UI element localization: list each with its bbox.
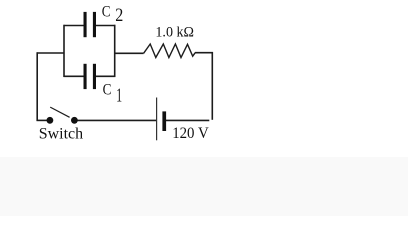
wire left stub (node A to capacitor bank left) [37, 52, 65, 54]
label C1 [103, 82, 122, 107]
wire right vertical [211, 52, 213, 120]
wire bottom left segment [37, 119, 48, 121]
wire mid stub to resistor [114, 52, 144, 54]
svg-text:1.0 kΩ: 1.0 kΩ [155, 25, 194, 41]
label C2 [102, 3, 123, 25]
svg-text:Switch: Switch [39, 126, 83, 143]
capacitor C1 [64, 64, 116, 89]
svg-text:1: 1 [116, 86, 122, 107]
wire left vertical [36, 52, 38, 121]
wire bottom right segment [166, 119, 209, 121]
svg-text:C: C [102, 3, 111, 20]
capacitor C2 [64, 12, 116, 37]
wire resistor to top-right corner [195, 52, 213, 54]
wire capacitor-bank right vertical [114, 25, 116, 77]
resistor R1 1.0 kOhm [144, 44, 196, 58]
wire capacitor-bank left vertical [63, 25, 65, 77]
svg-text:C: C [103, 82, 112, 99]
switch S1 [47, 107, 78, 124]
wire battery to right dot [78, 119, 157, 121]
battery B1 120 V [157, 98, 166, 141]
svg-text:120 V: 120 V [172, 125, 209, 142]
svg-text:2: 2 [115, 5, 123, 25]
